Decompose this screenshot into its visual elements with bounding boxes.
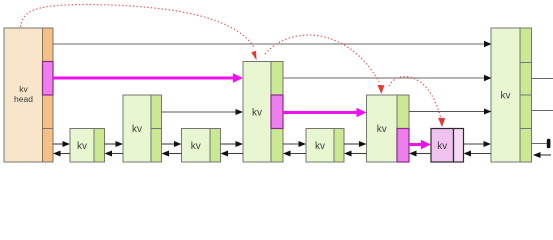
level-2 pointer n8 to right edge: [532, 78, 553, 80]
svg-text:kv: kv: [191, 141, 201, 152]
svg-text:kv: kv: [77, 141, 87, 152]
red dotted arc head to n4: [21, 5, 257, 61]
svg-text:head: head: [14, 94, 33, 104]
svg-text:kv: kv: [501, 91, 511, 102]
node n3: [182, 129, 221, 163]
level-3 pointer n2 to n4: [162, 109, 244, 115]
svg-text:kv: kv: [132, 124, 142, 135]
head node (kv head): [4, 28, 53, 162]
node n8: [491, 28, 532, 162]
svg-text:kv: kv: [252, 108, 262, 119]
level-4 n8 next to nil terminator: [532, 139, 551, 149]
node n6 highlighted cell: [397, 129, 409, 163]
red dotted arc n6 to n7: [389, 77, 445, 127]
level-3 magenta search arrow n4 to n6: [283, 108, 367, 118]
head highlighted level-2 cell: [43, 62, 54, 96]
level-3 pointer n6 to n8: [409, 109, 492, 115]
node n2: [123, 95, 162, 162]
level-3 pointer n8 to right edge: [532, 110, 553, 112]
svg-text:kv: kv: [19, 84, 28, 94]
level-2 pointer n4 to n8: [283, 75, 492, 81]
node n4: [243, 62, 283, 163]
red dotted arc n4 to n6: [265, 35, 385, 94]
node n7: [431, 129, 464, 163]
node n6: [367, 95, 410, 162]
level-4 next pointers: [53, 141, 491, 147]
level-2 magenta search arrow head to n4: [53, 73, 243, 83]
level-4 magenta search arrow n6 to n7: [409, 140, 431, 150]
node n4 highlighted cell: [271, 95, 283, 129]
level-1 pointer head to n8: [53, 41, 492, 47]
svg-text:kv: kv: [437, 141, 447, 152]
node n1: [70, 129, 105, 163]
svg-text:kv: kv: [315, 141, 325, 152]
node n5: [306, 129, 344, 163]
svg-text:kv: kv: [377, 124, 387, 135]
level-4 prev pointers: [53, 151, 551, 159]
